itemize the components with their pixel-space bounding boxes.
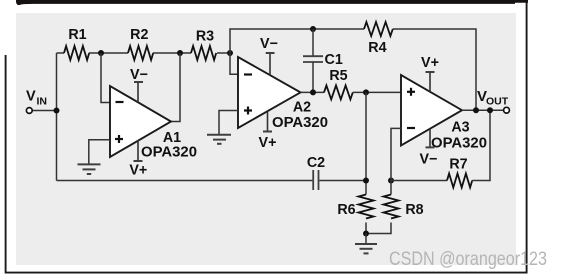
svg-text:V−: V−: [260, 36, 278, 52]
node: R4 feedback at output: [473, 107, 479, 113]
output terminal VOUT: [477, 88, 509, 113]
node: C2-R6 junction: [363, 178, 369, 184]
node: R3 output junction: [227, 50, 233, 56]
op-amp A1: [110, 86, 197, 161]
svg-text:V−: V−: [420, 152, 438, 168]
svg-text:R8: R8: [405, 202, 423, 218]
node: R8 top junction: [388, 178, 394, 184]
A1 V+ supply pin: [129, 140, 147, 179]
wire: R7 rail from R8 node: [391, 180, 447, 182]
wire: vertical from R5 node down to R6: [365, 92, 367, 194]
node: A2 output / C1 bottom: [310, 89, 316, 95]
svg-text:A2: A2: [293, 100, 311, 116]
svg-text:CSDN @orangeor123: CSDN @orangeor123: [389, 249, 547, 270]
A1 V- supply pin: [130, 67, 148, 102]
svg-text:R4: R4: [368, 40, 386, 56]
node: R5-R6 junction: [363, 89, 369, 95]
svg-text:OUT: OUT: [486, 96, 509, 108]
wire: A2 output to node: [301, 91, 325, 93]
A2 V- supply pin: [260, 36, 278, 75]
ground (A2 + input): [207, 135, 231, 144]
resistor R1: [64, 27, 89, 60]
svg-text:V−: V−: [130, 67, 148, 83]
capacitor C2: [307, 155, 366, 190]
svg-text:IN: IN: [37, 96, 48, 108]
resistor R3: [191, 29, 216, 61]
wire: top row y=53 segment to R1: [57, 52, 65, 54]
node: C1 top tap: [310, 26, 316, 32]
node: R1-R2 junction: [98, 50, 104, 56]
A2 V+ supply pin: [259, 111, 277, 151]
node: R7 feedback at output: [487, 107, 493, 113]
svg-text:V+: V+: [259, 135, 277, 151]
resistor R8 (vertical): [384, 195, 424, 219]
node: ground junction below R6: [363, 231, 369, 237]
resistor R7: [447, 157, 472, 188]
wire: A3 inverting input feedback down to R8 node: [391, 128, 401, 194]
resistor R4: [364, 22, 393, 56]
wire: A2 non-inverting input to ground: [219, 111, 238, 135]
wire: R3 junction up and right along top feedback rail to C1 tap: [230, 29, 364, 53]
svg-text:C1: C1: [325, 52, 343, 68]
op-amp A3: [401, 75, 487, 152]
svg-text:OPA320: OPA320: [431, 136, 487, 152]
wire: A3 output to terminal: [462, 109, 504, 111]
svg-text:R3: R3: [196, 29, 214, 45]
bottom feedback rail to C2: [57, 180, 313, 182]
wire: R4 right to Vout node: [393, 29, 476, 110]
resistor R6 (vertical): [337, 195, 373, 219]
capacitor C1: [303, 29, 343, 92]
svg-text:C2: C2: [307, 155, 325, 171]
wire: junction down to A1 inverting input: [101, 53, 110, 103]
ground (R6/R8): [355, 234, 377, 254]
wire: R2 to R3: [153, 52, 191, 54]
resistor R2: [128, 27, 153, 60]
node: R2-R3 junction: [177, 50, 183, 56]
A3 V+ supply pin: [421, 55, 439, 92]
op-amp A2: [238, 57, 328, 131]
svg-text:A3: A3: [451, 120, 469, 136]
wire: A1 output up to R2-R3 junction: [171, 53, 180, 122]
node: Vin junction: [54, 108, 60, 114]
svg-text:V+: V+: [421, 55, 439, 71]
svg-text:V: V: [26, 89, 36, 105]
wire: R7 right side up to Vout node: [472, 110, 490, 180]
ground (A1 + input): [78, 164, 101, 174]
svg-text:R6: R6: [337, 202, 355, 218]
wire: left vertical rail x=56.5 from R1 level down to bottom rail: [56, 53, 58, 181]
wire: Vin to input node: [33, 110, 57, 112]
wire: R3 to A2 node: [217, 52, 230, 54]
wire: R8 bottom over to ground node: [366, 223, 391, 234]
wire: A1 non-inverting input to ground: [89, 140, 110, 165]
svg-text:OPA320: OPA320: [272, 115, 328, 131]
svg-text:R2: R2: [130, 27, 148, 43]
svg-text:R7: R7: [449, 157, 467, 173]
svg-text:R5: R5: [329, 68, 347, 84]
input terminal VIN: [26, 89, 47, 114]
wire: R3 junction down to A2 inverting input: [230, 53, 238, 74]
A3 V- supply pin: [420, 129, 438, 168]
svg-text:R1: R1: [68, 27, 86, 43]
svg-text:V+: V+: [129, 163, 147, 179]
wire: R5 to A3 non-inverting input: [353, 91, 401, 93]
resistor R5: [324, 68, 353, 99]
svg-text:OPA320: OPA320: [141, 145, 197, 161]
wire: R1 to R2: [89, 52, 128, 54]
wire: R6 bottom to ground node: [365, 223, 367, 234]
